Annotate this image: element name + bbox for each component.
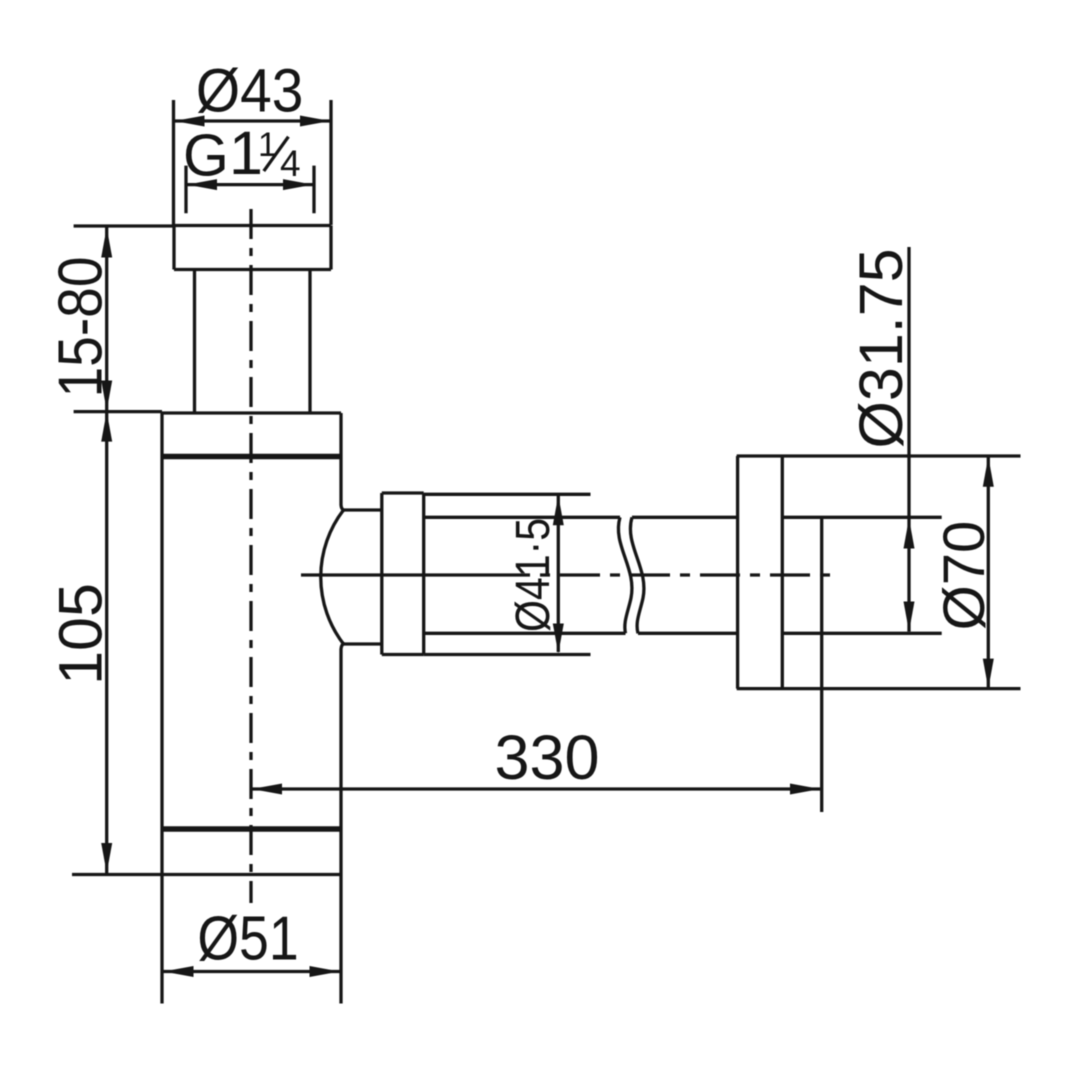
dimension D43 line [175,116,331,127]
svg-text:Ø41·5: Ø41·5 [507,518,560,632]
wall flange top line with D70 extension [737,454,1021,457]
body flange bottom thick line [162,454,341,460]
union nut [382,493,424,655]
svg-text:105: 105 [47,583,115,685]
tailpiece top flange [174,226,331,270]
pipe bottom edge left segment [424,632,626,635]
dimension D41.5 extension top [424,493,591,496]
wall flange bottom line with D70 extension [737,687,1021,690]
pipe break line right [630,517,644,633]
pipe stub bottom edge right of flange [782,632,941,635]
wall flange [738,456,783,689]
body right wall lower [341,644,345,1004]
svg-text:4: 4 [280,143,301,184]
dimension G 1-1/4 line [187,179,313,190]
dimension 330 extension line right [820,517,823,812]
dimension G 1-1/4 extension lines [186,166,314,214]
outlet dome arc [321,510,344,644]
centerline horizontal pipe axis [301,573,840,576]
pipe top edge right segment [632,516,738,519]
body right wall upper [341,457,345,511]
pipe stub top edge right of flange [782,516,941,519]
dimension 105 line [101,412,112,873]
dimension 15-80 line [101,228,112,411]
svg-text:Ø51: Ø51 [197,905,298,973]
dimension 15-80 extension line top [74,224,174,227]
dimension 105 extension line bottom [72,873,342,876]
dimension 330 line [252,784,820,795]
svg-text:330: 330 [494,723,599,793]
dimension 15-80 extension line bottom [74,410,162,413]
body top flange [162,413,341,457]
svg-text:Ø31.75: Ø31.75 [847,248,915,448]
dimension D43 extension lines [174,100,332,225]
body cup seam thick line [162,826,341,832]
dimension D70 line [983,457,994,689]
dimension D31.75 line [904,247,915,632]
pipe bottom edge right segment [638,632,738,635]
dimension D41.5 extension bottom [424,653,591,656]
dimension D51 line [164,966,340,977]
outlet neck top line [344,508,382,511]
centerline vertical body axis [249,209,252,903]
tailpiece pipe [195,270,311,414]
svg-text:Ø43: Ø43 [196,58,303,125]
dimension D41.5 line [553,495,564,653]
body left wall [160,457,163,1004]
svg-text:15-80: 15-80 [47,256,116,397]
svg-text:Ø70: Ø70 [932,521,997,631]
pipe break line left [618,517,632,633]
outlet neck bottom line [344,642,382,645]
svg-text:G: G [183,123,229,189]
pipe top edge left segment [424,516,620,519]
